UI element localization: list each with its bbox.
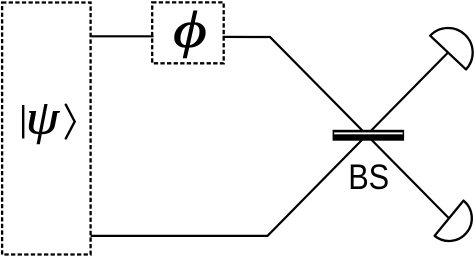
beam splitter BS (black bar)	[333, 130, 405, 141]
label |psi> : right angle bracket	[66, 105, 75, 139]
detector D2 (bottom, half-disc)	[435, 201, 472, 241]
wire from source box to phase box	[91, 35, 154, 37]
svg-text:ϕ: ϕ	[173, 0, 207, 58]
wire bottom arm from source box through beam splitter to top detector	[91, 53, 448, 236]
detector D1 (top, half-disc)	[430, 28, 472, 69]
svg-text:BS: BS	[348, 158, 389, 197]
beam splitter highlight stripe	[334, 132, 403, 134]
svg-text:ψ: ψ	[26, 90, 60, 144]
label |psi> : ket bar	[22, 105, 24, 139]
source box |psi> (dashed rectangle)	[2, 3, 91, 255]
phase shifter box phi (dashed)	[152, 2, 224, 63]
wire from phase box to bend (top arm)	[223, 37, 449, 218]
